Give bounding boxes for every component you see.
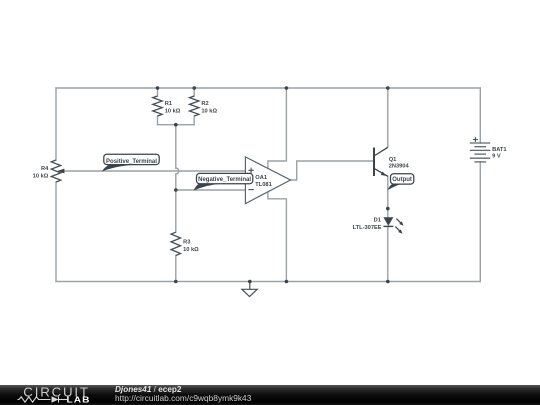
svg-text:D1: D1 [374,218,381,224]
svg-text:Positive_Terminal: Positive_Terminal [106,159,157,165]
svg-text:9 V: 9 V [492,154,501,160]
svg-text:10 kΩ: 10 kΩ [165,108,181,114]
svg-text:R1: R1 [165,101,172,107]
svg-text:Negative_Terminal: Negative_Terminal [198,177,251,183]
svg-text:10 kΩ: 10 kΩ [33,173,49,179]
svg-text:BAT1: BAT1 [492,147,506,153]
svg-text:R2: R2 [201,101,208,107]
svg-text:TL081: TL081 [255,182,271,188]
svg-text:Q1: Q1 [389,157,397,163]
svg-text:2N3904: 2N3904 [389,163,410,169]
svg-text:LTL-307EE: LTL-307EE [353,225,382,231]
svg-text:Output: Output [392,177,412,183]
svg-text:R3: R3 [183,240,190,246]
svg-text:LAB: LAB [67,395,91,405]
svg-text:R4: R4 [41,166,49,172]
svg-text:10 kΩ: 10 kΩ [183,247,199,253]
svg-text:OA1: OA1 [255,175,267,181]
svg-text:10 kΩ: 10 kΩ [201,108,217,114]
svg-text:http://circuitlab.com/c9wqb8ym: http://circuitlab.com/c9wqb8ymk9k43 [115,393,252,403]
